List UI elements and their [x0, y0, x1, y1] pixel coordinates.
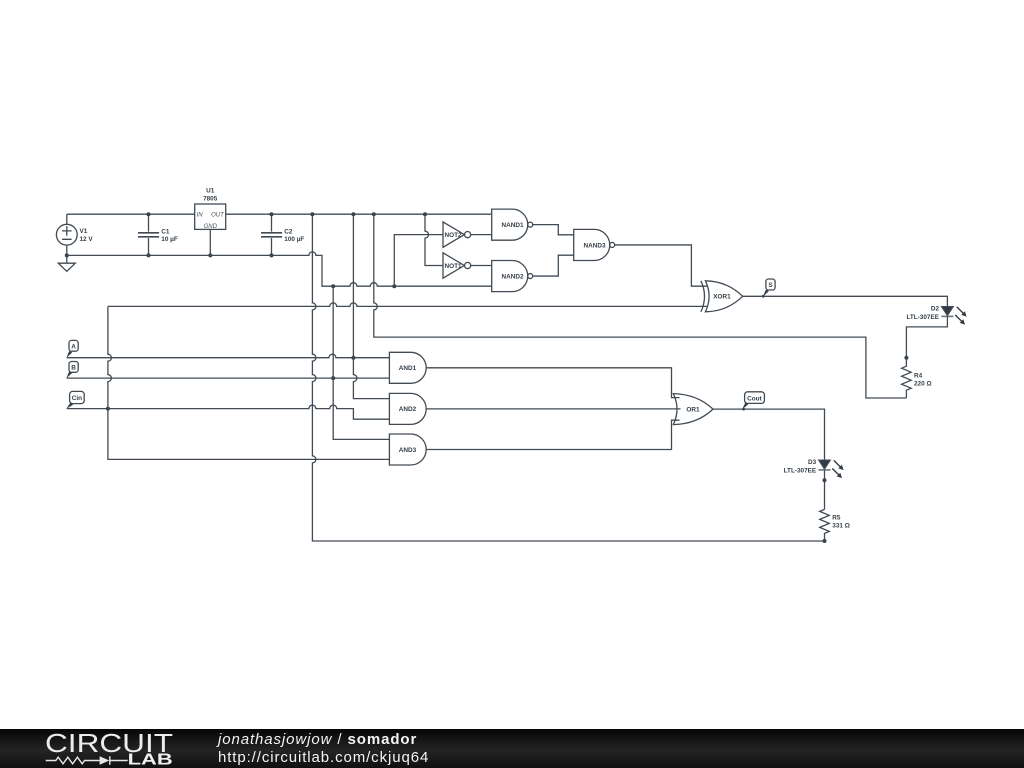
- node: rail tap x425: [423, 212, 427, 216]
- inverter NOT2: [443, 222, 471, 247]
- svg-text:100 µF: 100 µF: [284, 236, 304, 243]
- svg-text:A: A: [71, 343, 76, 350]
- svg-text:10 µF: 10 µF: [161, 236, 178, 243]
- svg-text:Cin: Cin: [72, 395, 82, 402]
- nand gate NAND3: [574, 229, 615, 260]
- xor gate XOR1: [701, 281, 743, 312]
- capacitor C1: [138, 214, 159, 255]
- D2 light arrows: [955, 307, 963, 322]
- svg-text:12 V: 12 V: [80, 236, 94, 243]
- wire: NAND2 output to NAND3 B input: [533, 255, 574, 276]
- wire: 5V bus to R4 bottom: [374, 214, 907, 398]
- wire: 5V drop to NOT1 input with hop: [425, 214, 443, 265]
- svg-text:NOT1: NOT1: [445, 263, 462, 270]
- node: rail tap x353: [351, 212, 355, 216]
- resistor R4: [902, 358, 912, 398]
- svg-text:LAB: LAB: [128, 752, 173, 768]
- svg-text:Cout: Cout: [747, 395, 762, 402]
- and gate AND3: [389, 434, 426, 465]
- svg-text:AND1: AND1: [399, 365, 417, 372]
- node: V1 bottom junction: [65, 253, 69, 257]
- and gate AND1: [389, 352, 426, 383]
- ground: [58, 255, 75, 271]
- wire: D2 cathode to R4 top: [906, 316, 947, 357]
- nand gate NAND1: [492, 209, 533, 240]
- svg-text:IN: IN: [197, 213, 204, 219]
- wire: AND1 output to OR1: [426, 368, 679, 398]
- flag S: [763, 279, 775, 297]
- inverter NOT1: [443, 253, 471, 278]
- flag Cout: [742, 392, 764, 410]
- node: R4 top junction: [904, 356, 908, 360]
- svg-text:D2: D2: [931, 306, 940, 313]
- svg-text:R5: R5: [832, 514, 841, 521]
- wire: NAND3 output to XOR1 A input: [615, 245, 708, 286]
- wire: U1 GND lead: [209, 229, 211, 255]
- wire: 5V bus x312 down to bottom rail: [312, 214, 824, 541]
- svg-text:AND3: AND3: [399, 447, 417, 454]
- svg-text:LTL-307EE: LTL-307EE: [784, 467, 817, 474]
- node: Cout anchor: [742, 408, 745, 411]
- svg-text:D3: D3: [808, 459, 817, 466]
- CircuitLab logo: [40, 729, 240, 768]
- resistor R5: [820, 509, 830, 541]
- node: A tap x353: [351, 356, 355, 360]
- flag B: [66, 362, 78, 379]
- flag A: [66, 340, 78, 358]
- label V1 12 V: [80, 228, 94, 243]
- capacitor C2: [261, 214, 282, 255]
- node: U1 GND bottom: [208, 253, 212, 257]
- svg-text:OR1: OR1: [686, 407, 700, 414]
- D3 light arrows: [832, 460, 840, 475]
- wire: ground rail with hop, jog down to NAND2 input level: [67, 252, 492, 286]
- wire: XOR1 output to D2: [743, 296, 948, 306]
- LED D2: [941, 307, 953, 317]
- node: R5 bottom junction: [823, 539, 827, 543]
- wire: Cin line to XOR1 B input with hops: [108, 303, 708, 306]
- wire: NOT2 input from gnd jog up: [394, 235, 443, 287]
- wire: 5V rail U1 OUT to NAND1: [226, 213, 492, 215]
- footer bar: [0, 729, 1024, 768]
- wire: +12V top rail V1 to U1 IN: [67, 213, 195, 215]
- svg-text:R4: R4: [914, 373, 923, 380]
- wire: AND3 output to OR1: [426, 420, 679, 449]
- wire: NAND1 output to NAND3 A input: [533, 225, 574, 235]
- wire: OR1 output to D3: [713, 409, 825, 460]
- wire: rail bus x353 to AND2 input: [353, 214, 389, 398]
- wire: AND2 output to OR1: [426, 408, 680, 410]
- wire: NOT2 output to NAND1 B input: [471, 234, 492, 236]
- wire: A to AND1 input: [67, 354, 390, 358]
- svg-text:V1: V1: [80, 228, 88, 235]
- node: C2 top: [270, 212, 274, 216]
- svg-text:AND2: AND2: [399, 406, 417, 413]
- svg-text:NOT2: NOT2: [445, 232, 462, 239]
- svg-text:NAND3: NAND3: [583, 242, 605, 249]
- node: Cin tap x108: [106, 407, 110, 411]
- svg-text:NAND2: NAND2: [501, 273, 523, 280]
- label C2 100 uF: [284, 228, 304, 243]
- svg-text:NAND1: NAND1: [501, 222, 523, 229]
- label C1 10 uF: [161, 228, 178, 243]
- svg-text:7805: 7805: [203, 195, 218, 202]
- node: rail tap x374: [372, 212, 376, 216]
- node: C2 bottom: [270, 253, 274, 257]
- node: B tap x333: [331, 376, 335, 380]
- nand gate NAND2: [492, 261, 533, 292]
- svg-text:C2: C2: [284, 228, 293, 235]
- svg-text:GND: GND: [204, 224, 218, 230]
- LED D3: [819, 460, 831, 470]
- or gate OR1: [673, 394, 713, 425]
- node: rail tap x312: [310, 212, 314, 216]
- node: R5 top junction: [823, 478, 827, 482]
- wire: gnd bus x333 to AND3 input: [333, 286, 389, 439]
- svg-text:S: S: [768, 282, 773, 289]
- flag Cin: [66, 391, 84, 409]
- node: S anchor: [762, 295, 765, 298]
- wire: Cin branch up to XOR and down to AND3: [108, 306, 390, 459]
- voltage source V1: [56, 214, 77, 255]
- label U1 7805: [203, 187, 218, 202]
- node: gnd jog tap x394: [392, 284, 396, 288]
- node: C1 bottom: [147, 253, 151, 257]
- svg-text:331 Ω: 331 Ω: [832, 522, 850, 529]
- wire: B to AND1 input: [67, 377, 390, 379]
- svg-text:OUT: OUT: [211, 213, 225, 219]
- svg-text:LTL-307EE: LTL-307EE: [906, 314, 939, 321]
- wire: NOT1 output to NAND2 A input: [471, 265, 492, 267]
- regulator U1 7805: [195, 204, 226, 229]
- node: gnd jog tap x333: [331, 284, 335, 288]
- node: C1 top: [147, 212, 151, 216]
- svg-text:220 Ω: 220 Ω: [914, 381, 932, 388]
- svg-text:XOR1: XOR1: [713, 294, 731, 301]
- svg-text:B: B: [71, 365, 76, 372]
- svg-text:C1: C1: [161, 228, 170, 235]
- wire: Cin to AND2 input jog: [67, 405, 390, 419]
- wire: D3 cathode to R5: [824, 470, 826, 510]
- svg-text:U1: U1: [206, 187, 215, 194]
- and gate AND2: [389, 393, 426, 424]
